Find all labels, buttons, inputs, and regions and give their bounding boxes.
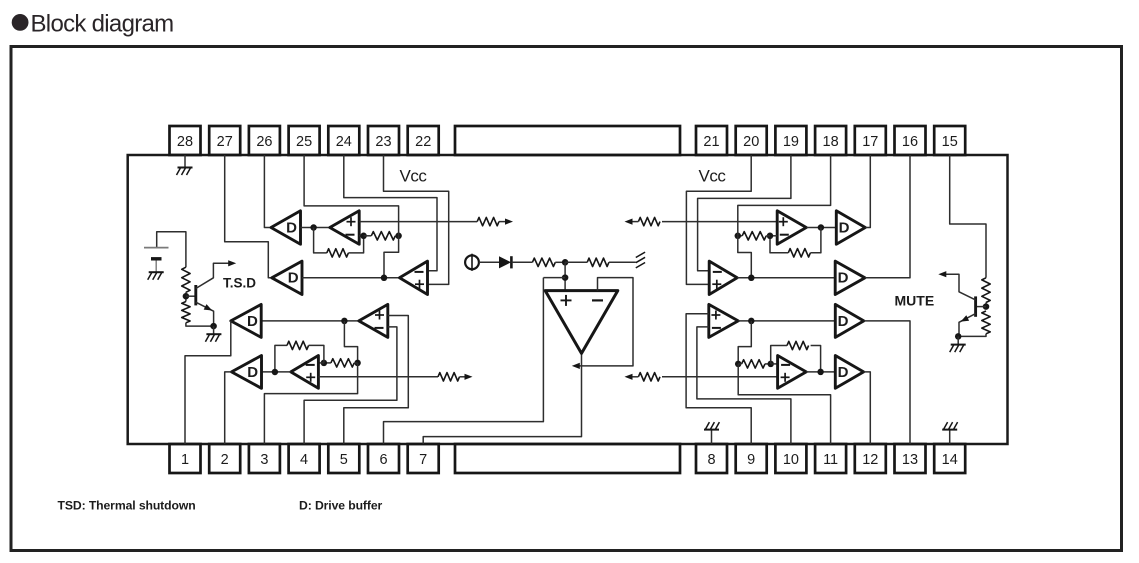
- svg-text:D: D: [838, 270, 849, 287]
- resistor R14 (ch3 series): [742, 232, 766, 240]
- svg-text:Vcc: Vcc: [699, 166, 727, 185]
- wire - input A1: [359, 235, 363, 237]
- wire bias node down: [564, 262, 566, 290]
- wire R6 right: [354, 362, 357, 364]
- arrow MUTE in: [938, 271, 946, 277]
- node A2 out: [381, 275, 388, 282]
- wire vref rail: [543, 277, 565, 279]
- svg-text:D: D: [288, 270, 299, 287]
- bottom tab box: [455, 444, 680, 473]
- wire - input B1: [770, 235, 777, 237]
- drive buffer E2: [835, 261, 865, 294]
- wire R5 right: [395, 235, 398, 237]
- feedback loop B4: [811, 346, 821, 372]
- svg-text:D: D: [839, 219, 850, 236]
- node Q2 emitter: [955, 333, 962, 340]
- ground pin14: [942, 429, 957, 431]
- pin 7: [408, 444, 439, 473]
- feedback loop B1: [810, 228, 821, 253]
- node B2 out: [748, 275, 755, 282]
- wire F4 out to pin12: [864, 372, 871, 444]
- wire R15 left: [738, 363, 741, 365]
- wire bias node to R10: [565, 261, 587, 263]
- resistor R9 (bias): [532, 258, 555, 266]
- feedback loop A4: [275, 345, 287, 372]
- drive buffer F3: [835, 304, 864, 337]
- wire pin14 ground stem: [949, 430, 951, 444]
- resistor R4 (A1 feedback): [327, 249, 349, 257]
- drive buffer D2: [272, 261, 302, 294]
- pin 20: [736, 126, 767, 155]
- arrow ch4 output: [625, 374, 633, 380]
- arrow U1 feedback: [572, 363, 580, 369]
- arrow Q1 emitter: [204, 304, 213, 310]
- transistor Q1 collector: [196, 263, 231, 288]
- wire pin27 to D2 out: [225, 155, 272, 278]
- pin 11: [815, 444, 846, 473]
- wire F3 out to pin13: [864, 321, 910, 444]
- pin 2: [209, 444, 240, 473]
- svg-text:D: D: [838, 364, 849, 381]
- node A3 out: [341, 318, 348, 325]
- resistor R7 (A4 feedback): [287, 341, 309, 349]
- wire B3 out to series node: [738, 321, 751, 364]
- node ch4 series L: [735, 361, 742, 368]
- feedback loop A1: [314, 228, 327, 253]
- pin 10: [775, 444, 806, 473]
- svg-text:24: 24: [336, 134, 352, 150]
- wire pin8 ground stem: [711, 430, 713, 444]
- current source CS1: [465, 255, 479, 269]
- svg-text:D: Drive buffer: D: Drive buffer: [299, 499, 383, 513]
- node mute base: [983, 303, 990, 310]
- wire D5 to R9: [511, 261, 532, 263]
- wire D3 out to pin1: [185, 321, 231, 444]
- wire pin26 to D1 out: [264, 155, 271, 228]
- node A1 minus: [360, 233, 367, 240]
- pin 4: [289, 444, 320, 473]
- drive buffer D3: [231, 304, 261, 337]
- transistor Q1 bar: [194, 285, 197, 305]
- svg-text:13: 13: [902, 452, 918, 468]
- svg-text:23: 23: [375, 134, 391, 150]
- pin 19: [775, 126, 806, 155]
- wire A3 - to pin4: [304, 327, 397, 444]
- pin 14: [934, 444, 965, 473]
- node vref: [562, 274, 569, 281]
- svg-text:26: 26: [256, 134, 272, 150]
- pin 25: [289, 126, 320, 155]
- wire pin23 to A2 +: [384, 155, 449, 284]
- wire U1 - feedback: [578, 278, 633, 366]
- wire R12 to arrow: [632, 376, 639, 378]
- svg-text:D: D: [286, 219, 297, 236]
- ground pin28: [178, 167, 193, 169]
- op-amp B3: [709, 304, 738, 337]
- svg-text:D: D: [247, 313, 258, 330]
- resistor R3 (ch1 out): [477, 217, 499, 225]
- svg-text:17: 17: [862, 134, 878, 150]
- pin 21: [696, 126, 727, 155]
- wire B4 out to F4: [806, 371, 835, 373]
- wire B3 + to pin9: [686, 314, 751, 444]
- pin 22: [408, 126, 439, 155]
- ground Q1: [206, 333, 221, 335]
- drive buffer D1: [271, 211, 301, 244]
- wire R6 left: [324, 362, 331, 364]
- op-amp U1 (power): [545, 291, 618, 354]
- pin 18: [815, 126, 846, 155]
- svg-text:10: 10: [783, 452, 799, 468]
- svg-text:21: 21: [703, 134, 719, 150]
- node B4 minus: [767, 361, 774, 368]
- svg-text:11: 11: [823, 452, 838, 468]
- wire E1 out to pin17: [865, 155, 870, 228]
- wire pin28 to ground: [184, 155, 186, 168]
- wire A4 + input: [318, 376, 438, 378]
- resistor R18 (mute lower): [982, 311, 990, 334]
- transistor Q2 collector: [944, 274, 976, 300]
- pin 27: [209, 126, 240, 155]
- node J1: [310, 224, 317, 231]
- wire R10 to ground: [609, 261, 636, 263]
- pin 26: [249, 126, 280, 155]
- arrow TSD out: [228, 260, 236, 266]
- svg-text:7: 7: [419, 452, 427, 468]
- svg-text:8: 8: [707, 452, 715, 468]
- wire pin25 to sum node: [304, 155, 399, 236]
- resistor R2 (TSD lower): [182, 302, 190, 323]
- wire R14 right: [766, 235, 770, 237]
- pin 17: [855, 126, 886, 155]
- pin 9: [736, 444, 767, 473]
- svg-text:D: D: [247, 364, 258, 381]
- diode D5: [499, 256, 511, 268]
- svg-text:3: 3: [260, 452, 268, 468]
- resistor R8 (ch2 out): [438, 373, 460, 381]
- svg-text:18: 18: [823, 134, 839, 150]
- node TSD base: [183, 293, 190, 300]
- svg-text:T.S.D: T.S.D: [223, 276, 256, 291]
- wire sum node to B2 out: [738, 236, 752, 278]
- resistor R15 (ch4 series): [742, 360, 765, 368]
- wire CS1 to D5: [479, 261, 499, 263]
- wire pin18 to sum node: [738, 155, 831, 236]
- resistor R5 (ch1 series): [371, 232, 395, 240]
- resistor R12 (ch4 out): [638, 373, 660, 381]
- svg-text:25: 25: [296, 134, 312, 150]
- resistor R16 (B4 feedback): [787, 341, 809, 349]
- wire B4 - input: [771, 363, 778, 365]
- drive buffer D4: [232, 356, 262, 389]
- wire R7 to A4 -: [309, 345, 324, 363]
- wire A3 out to D3: [261, 320, 359, 322]
- node ch3 sum: [735, 233, 742, 240]
- svg-text:27: 27: [217, 134, 233, 150]
- svg-text:22: 22: [415, 134, 431, 150]
- transistor Q2 base wire: [977, 306, 986, 308]
- wire E2 out to pin16: [865, 155, 910, 278]
- pin 12: [855, 444, 886, 473]
- resistor R6 (ch2 series): [331, 359, 354, 367]
- wire R5 left: [364, 235, 372, 237]
- resistor R10 (bias): [587, 258, 609, 266]
- wire A4 out to D4: [262, 371, 291, 373]
- wire R2 bottom to emitter node: [186, 323, 214, 326]
- drive buffer E1: [836, 211, 865, 244]
- svg-text:16: 16: [902, 134, 918, 150]
- wire R11 to arrow: [632, 221, 639, 223]
- wire pin20 to B2 +: [686, 155, 751, 284]
- transistor Q1 emitter: [196, 302, 214, 326]
- wire A3 out to series node: [344, 321, 357, 363]
- top tab box: [455, 126, 680, 155]
- drive buffer F4: [835, 356, 863, 389]
- svg-text:9: 9: [747, 452, 755, 468]
- wire A1 out to D1: [301, 227, 330, 229]
- pin 28: [170, 126, 201, 155]
- resistor R13 (B1 feedback): [788, 249, 810, 257]
- transistor Q2 emitter: [959, 314, 976, 337]
- pin 6: [368, 444, 399, 473]
- wire series node to pin11: [738, 364, 830, 444]
- wire Q2 emitter to ground: [957, 336, 959, 344]
- node F4 in: [817, 369, 824, 376]
- wire series node to pin3: [264, 363, 357, 444]
- op-amp A3: [359, 304, 388, 337]
- pin 24: [328, 126, 359, 155]
- arrow ch3 output: [625, 219, 633, 225]
- wire B3 - to pin10: [697, 327, 791, 444]
- resistor R1 (TSD upper): [182, 267, 190, 292]
- node Q1 emitter: [210, 323, 217, 330]
- svg-text:14: 14: [942, 452, 958, 468]
- wire A4 - input: [318, 362, 324, 364]
- svg-text:Vcc: Vcc: [400, 166, 428, 185]
- pin 3: [249, 444, 280, 473]
- node B3 out: [748, 318, 755, 325]
- svg-text:TSD: Thermal shutdown: TSD: Thermal shutdown: [58, 499, 196, 513]
- resistor R11 (ch3 out): [638, 217, 660, 225]
- op-amp A2: [400, 261, 428, 294]
- pin 16: [895, 126, 926, 155]
- pin 13: [895, 444, 926, 473]
- svg-text:15: 15: [942, 134, 958, 150]
- capacitor C1 bottom plate: [151, 257, 162, 260]
- node J2: [818, 224, 825, 231]
- wire R3 to arrow: [499, 221, 506, 223]
- wire B3 out to F3: [738, 320, 835, 322]
- wire R9 to node: [555, 261, 565, 263]
- wire B2 out to E2: [737, 277, 835, 279]
- wire B1 out to E1: [806, 227, 836, 229]
- svg-text:Block diagram: Block diagram: [31, 10, 174, 37]
- ground pin8: [704, 429, 719, 431]
- pin 15: [934, 126, 965, 155]
- wire B1 + input: [662, 221, 777, 223]
- wire R17 to node: [985, 303, 987, 307]
- svg-text:4: 4: [300, 452, 308, 468]
- op-amp B4: [778, 356, 807, 389]
- wire pin7 to power out: [423, 353, 581, 444]
- pin 23: [368, 126, 399, 155]
- wire cap to resistor top: [157, 232, 186, 268]
- wire pin6 to vref rail: [384, 278, 544, 444]
- svg-text:MUTE: MUTE: [895, 293, 935, 309]
- wire pin15 to R17: [950, 155, 986, 278]
- svg-text:D: D: [838, 313, 849, 330]
- wire emitter to ground: [213, 326, 215, 334]
- node B1 minus: [767, 233, 774, 240]
- ground bias: [636, 263, 645, 268]
- node ch2 series R right: [354, 360, 361, 367]
- wire R13 to - node: [770, 236, 788, 253]
- op-amp A4: [291, 356, 319, 389]
- pin 1: [170, 444, 201, 473]
- svg-text:1: 1: [181, 452, 189, 468]
- op-amp B2: [709, 261, 737, 294]
- wire pin24 to A2 -: [344, 155, 437, 271]
- wire B4 + input: [662, 376, 778, 378]
- svg-text:20: 20: [743, 134, 759, 150]
- wire R4 to - node: [348, 236, 363, 253]
- ground Q2: [951, 344, 966, 346]
- svg-text:12: 12: [862, 452, 878, 468]
- IC body: [128, 155, 1008, 444]
- arrow ch2 output: [465, 374, 473, 380]
- svg-text:2: 2: [221, 452, 229, 468]
- resistor R17 (mute upper): [982, 278, 990, 303]
- wire D4 out to pin2: [225, 372, 232, 444]
- wire R18 bottom: [958, 334, 986, 337]
- wire A2 out to D2: [302, 277, 400, 279]
- wire pin19 to B2 -: [698, 155, 791, 271]
- node A4 minus: [321, 360, 328, 367]
- wire sum node to A2 out: [384, 236, 399, 278]
- title bullet: [12, 14, 29, 31]
- transistor Q2 bar: [974, 296, 977, 316]
- arrow ch1 output: [505, 219, 513, 225]
- wire A1 + input: [359, 221, 477, 223]
- node bias: [562, 259, 569, 266]
- wire cap to ground: [155, 261, 157, 273]
- wire R1-R2: [185, 292, 187, 301]
- ground C1: [149, 271, 164, 273]
- node ch1 sum: [395, 233, 402, 240]
- svg-text:5: 5: [340, 452, 348, 468]
- svg-text:19: 19: [783, 134, 799, 150]
- pin 5: [328, 444, 359, 473]
- op-amp A1: [330, 211, 359, 244]
- wire R16 to B4 -: [771, 346, 787, 364]
- wire R8 to arrow: [460, 376, 466, 378]
- wire A3 + to pin5: [344, 316, 409, 445]
- arrow Q2 emitter: [961, 315, 970, 321]
- transistor Q1 base wire: [186, 295, 195, 297]
- svg-text:28: 28: [177, 134, 193, 150]
- wire R14 left: [738, 235, 742, 237]
- node D4 in: [272, 369, 279, 376]
- wire R15 right: [765, 363, 771, 365]
- capacitor C1 top plate: [144, 247, 169, 249]
- svg-text:6: 6: [379, 452, 387, 468]
- pin 8: [696, 444, 727, 473]
- op-amp B1: [777, 211, 806, 244]
